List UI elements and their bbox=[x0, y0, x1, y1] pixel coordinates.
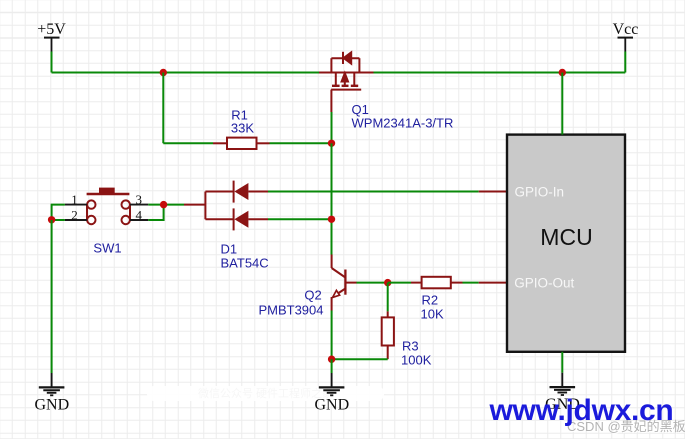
resistor R3 bbox=[382, 311, 394, 359]
transistor Q2 (NPN) bbox=[332, 255, 357, 311]
resistor R2 bbox=[411, 277, 463, 289]
wire MCU Vdd bbox=[561, 73, 563, 135]
pin 2 of SW1 bbox=[65, 207, 87, 222]
svg-text:33K: 33K bbox=[231, 121, 254, 136]
wire R3 bottom to emitter node bbox=[332, 358, 388, 360]
MCU block U? bbox=[507, 135, 625, 352]
svg-text:D1: D1 bbox=[221, 242, 238, 257]
svg-text:BAT54C: BAT54C bbox=[221, 256, 269, 271]
wire node to R2 bbox=[388, 282, 411, 284]
svg-text:10K: 10K bbox=[421, 307, 444, 322]
svg-text:+5V: +5V bbox=[37, 21, 66, 38]
junction top rail / MCU Vdd bbox=[559, 69, 566, 76]
wire R2 to MCU GPIO-Out bbox=[463, 282, 479, 284]
ground left bbox=[34, 373, 69, 414]
svg-text:Q2: Q2 bbox=[304, 288, 321, 303]
svg-text:GPIO-In: GPIO-In bbox=[515, 185, 565, 200]
wire SW1 pin3 to D1 bbox=[148, 204, 184, 206]
svg-text:GND: GND bbox=[34, 397, 69, 414]
wire MCU Vss bbox=[561, 352, 563, 373]
wire SW1 pin4 loop bbox=[148, 205, 163, 220]
svg-text:Vcc: Vcc bbox=[613, 21, 639, 38]
wire gate column (Q1 gate to R1 node) bbox=[331, 112, 333, 143]
pin GPIO-In stub bbox=[479, 191, 507, 193]
wire top rail left (+5V to Q1 drain) bbox=[52, 72, 320, 74]
svg-text:MCU: MCU bbox=[540, 224, 592, 250]
wire D1 top anode to MCU GPIO-In bbox=[268, 191, 479, 193]
resistor R1 bbox=[213, 138, 270, 149]
svg-text:R2: R2 bbox=[422, 293, 439, 308]
svg-text:2: 2 bbox=[71, 207, 78, 222]
wire Vcc drop bbox=[624, 52, 626, 73]
wire SW1 pin1 loop bbox=[52, 205, 65, 220]
watermark www.jdwx.cn bbox=[490, 396, 674, 426]
wire R1 branch horizontal bbox=[163, 142, 213, 144]
power +5V bbox=[37, 21, 66, 52]
switch SW1 bbox=[87, 188, 130, 225]
wire +5V drop bbox=[51, 52, 53, 73]
ground middle bbox=[314, 373, 349, 414]
svg-text:3: 3 bbox=[135, 192, 142, 207]
svg-text:WPM2341A-3/TR: WPM2341A-3/TR bbox=[352, 116, 454, 131]
wire SW1 left to GND bbox=[51, 220, 53, 373]
wire D1 bottom anode to node bbox=[268, 218, 332, 220]
junction emitter / R3 return bbox=[328, 356, 335, 363]
wire R1 branch vertical bbox=[162, 73, 164, 144]
diode D1 (BAT54C dual, common cathode) bbox=[184, 181, 268, 231]
wire D1 node down to Q2 collector bbox=[331, 219, 333, 254]
svg-text:4: 4 bbox=[135, 207, 142, 222]
watermark white band bbox=[147, 386, 384, 401]
pin GPIO-Out stub bbox=[479, 282, 507, 284]
wire emitter node to GND bbox=[331, 359, 333, 373]
wire Q2 emitter down bbox=[331, 311, 333, 360]
junction D1 bottom anode / gate column bbox=[328, 216, 335, 223]
power Vcc bbox=[613, 21, 639, 52]
svg-text:R3: R3 bbox=[402, 339, 419, 354]
svg-text:GPIO-Out: GPIO-Out bbox=[514, 276, 574, 291]
ground right bbox=[545, 373, 580, 414]
pin 4 of SW1 bbox=[130, 207, 148, 222]
junction top rail / R1 branch bbox=[160, 69, 167, 76]
wire Q2 base to node bbox=[357, 282, 388, 284]
svg-text:PMBT3904: PMBT3904 bbox=[258, 303, 323, 318]
transistor Q1 (P-MOSFET) bbox=[319, 52, 374, 112]
pin 1 of SW1 bbox=[65, 192, 87, 207]
junction base node / R3 bbox=[384, 279, 391, 286]
wire gate node down to D1 node bbox=[331, 143, 333, 219]
svg-text:GND: GND bbox=[314, 397, 349, 414]
wire top rail right (Q1 source to Vcc) bbox=[374, 72, 626, 74]
svg-text:1: 1 bbox=[71, 192, 78, 207]
junction SW1 right bbox=[160, 201, 167, 208]
wire R3 branch down bbox=[387, 283, 389, 312]
svg-text:100K: 100K bbox=[401, 353, 432, 368]
watermark CSDN gray bbox=[567, 416, 685, 435]
svg-text:SW1: SW1 bbox=[93, 241, 121, 256]
wire R1 to gate node bbox=[270, 142, 332, 144]
junction R1 / gate node bbox=[328, 140, 335, 147]
junction SW1 left / GND branch bbox=[48, 216, 55, 223]
pin 3 of SW1 bbox=[130, 192, 148, 207]
